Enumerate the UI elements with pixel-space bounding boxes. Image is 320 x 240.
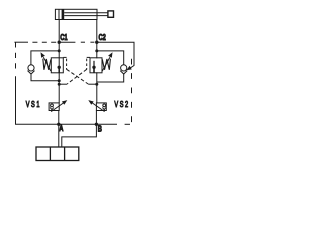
left loop lower wire bbox=[31, 74, 59, 81]
wire A line down to valve bbox=[58, 111, 60, 148]
pilot wire to node B line bbox=[88, 83, 97, 85]
counterbalance valve V1 body bbox=[51, 58, 63, 73]
pilot wire to node A line bbox=[59, 83, 67, 85]
right check-valve loop top wire bbox=[97, 51, 124, 65]
V2 adjust arrow bbox=[102, 57, 110, 71]
V1 adjust arrow bbox=[43, 57, 51, 71]
node left loop bottom dot bbox=[58, 79, 61, 82]
wire C2 vertical bbox=[96, 20, 98, 58]
V2 poppet ball bbox=[92, 66, 95, 69]
svg-text:A: A bbox=[59, 125, 63, 133]
cylinder CYL barrel bbox=[55, 9, 97, 19]
V2 poppet stem bbox=[93, 67, 95, 73]
cylinder piston bbox=[62, 9, 65, 19]
node B dot bbox=[95, 123, 98, 126]
V1 spring bbox=[43, 59, 51, 70]
arrowhead pointing to right check valve bbox=[126, 66, 131, 70]
counterbalance valve V2 body bbox=[90, 58, 102, 73]
manifold dashed box left edge bbox=[15, 42, 17, 73]
manifold dashed box top edge left bbox=[14, 41, 28, 43]
V2 pilot diagonal to A side bbox=[67, 69, 87, 84]
V1 poppet ball bbox=[58, 66, 61, 69]
V1 pilot dashed line bbox=[63, 56, 66, 58]
manifold box bottom edge / A-B wire bbox=[59, 123, 118, 125]
manifold box bottom edge dash right bbox=[125, 123, 130, 125]
V1 main line through body bbox=[58, 58, 60, 103]
manifold dashed box right edge bbox=[131, 59, 133, 124]
node pilot-A dot bbox=[58, 83, 61, 86]
V1 pilot diagonal to B side bbox=[67, 69, 89, 84]
cylinder rod bbox=[64, 12, 108, 14]
DV cell divider 2 bbox=[64, 147, 66, 161]
node A dot bbox=[57, 123, 60, 126]
node C1 junction dot bbox=[58, 41, 61, 44]
VS2 adjust arrow bbox=[92, 103, 105, 112]
V2 spring bbox=[102, 59, 110, 70]
check valve CV2 ball bbox=[121, 65, 127, 71]
svg-text:C2: C2 bbox=[99, 34, 106, 42]
wire B line down and left to valve bbox=[62, 124, 97, 147]
VS2 poppet bbox=[103, 104, 106, 107]
relief valve VS2 body bbox=[96, 103, 106, 111]
svg-text:B: B bbox=[98, 126, 102, 134]
V1 poppet stem bbox=[58, 67, 60, 73]
VS1 poppet bbox=[51, 104, 54, 107]
DV cell divider 1 bbox=[49, 147, 51, 161]
manifold left edge solid lower part bbox=[16, 76, 59, 124]
directional valve DV body bbox=[36, 147, 79, 161]
right loop lower wire bbox=[97, 74, 124, 82]
VS1 adjust arrow bbox=[51, 103, 64, 112]
check valve CV2 seat bbox=[120, 71, 127, 74]
node pilot-B dot bbox=[95, 83, 98, 86]
cylinder cap line bbox=[58, 9, 60, 19]
V2 pilot dashed line bbox=[87, 56, 90, 58]
wire C2 to right side down bbox=[97, 42, 134, 68]
check valve CV1 ball bbox=[28, 65, 34, 71]
svg-text:VS2: VS2 bbox=[114, 101, 129, 109]
node loop-top junction dot right bbox=[95, 49, 98, 52]
V2 main line through body bbox=[96, 57, 98, 60]
node C2 junction dot bbox=[95, 41, 98, 44]
check valve CV1 seat bbox=[28, 71, 35, 74]
svg-text:VS1: VS1 bbox=[26, 101, 41, 109]
relief valve VS1 body bbox=[49, 103, 59, 111]
manifold dashed box top edge mid bbox=[59, 41, 75, 43]
node loop-top junction dot left bbox=[58, 49, 61, 52]
left check-valve loop top wire bbox=[31, 51, 59, 65]
wire C1 vertical bbox=[58, 20, 60, 58]
cylinder rod end bbox=[108, 11, 114, 17]
svg-text:C1: C1 bbox=[60, 34, 67, 42]
